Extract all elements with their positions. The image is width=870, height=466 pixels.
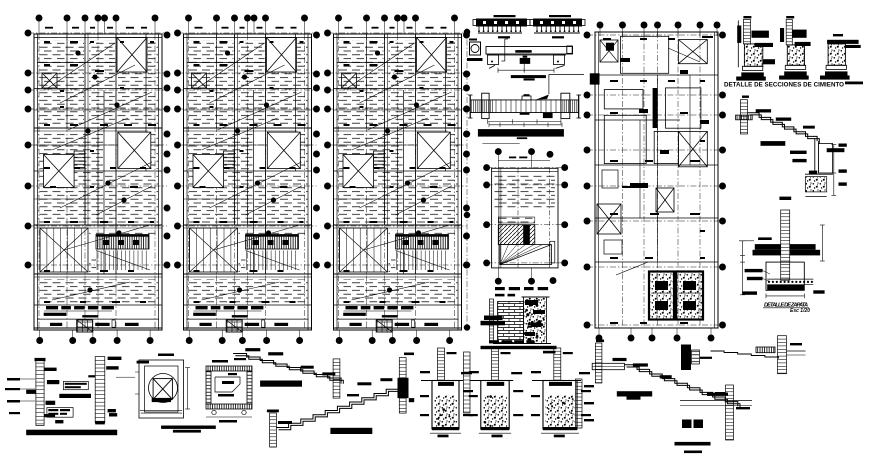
footing pit section 1: ground line: [421, 380, 463, 382]
beam-and-columns elevation V-D: [469, 95, 471, 118]
landing strip: [550, 241, 555, 263]
leader to grid bubble: [549, 73, 584, 75]
slab joist hatch areas: [38, 40, 84, 126]
section mark symbol with circle: [470, 42, 481, 55]
slab direction arrows with node circles: [48, 43, 115, 88]
stair zigzag steps: [748, 113, 818, 141]
long beam elevation V-C: [486, 47, 573, 55]
small X box left: [42, 73, 57, 88]
plan-3 to detail leader bubbles column: [464, 29, 470, 35]
schedule table 1: [63, 381, 88, 389]
typical slab floor plan block (aligerado): [25, 15, 170, 344]
beam crossing start column: [592, 363, 624, 369]
cimiento section 2: side reinforcement block: [792, 30, 806, 38]
shaft stair fan: [500, 245, 552, 265]
footing pit section 1: column: [438, 348, 445, 381]
landing support ladder 1: [333, 359, 340, 398]
stair flight section (far right): top ladder: [740, 100, 747, 134]
footing pit section 2: column: [492, 348, 499, 381]
column with dark splice block: [399, 358, 406, 378]
top dimension text dashes: [45, 27, 53, 29]
lower column with beam (bottom right): [726, 385, 734, 440]
cimiento section 1: footing block: [744, 44, 762, 66]
excavation room outlines: [620, 36, 668, 73]
wall section detail A (bottom far left): [35, 358, 46, 361]
zapata slab dark bands: [755, 244, 781, 250]
landing support box: [818, 144, 832, 174]
beam elevation detail V-B (top right): [549, 15, 571, 17]
long dark bar: [59, 394, 91, 398]
beam crossing ladder: [736, 115, 753, 120]
grid bubbles top row: [36, 15, 42, 21]
caption bar under wall sections (long): [26, 430, 117, 436]
grid bubbles left column + horizontal grid lines: [25, 30, 31, 36]
masonry left face rebar: [490, 299, 494, 343]
foundation plan grid bubbles left: [584, 32, 590, 38]
bottom schedule band: [37, 318, 159, 320]
schedule table 2: [47, 408, 73, 418]
section cut line through beam: [504, 39, 506, 61]
foundation plan outline: [595, 32, 718, 328]
masonry wall detail: brick block: [498, 302, 524, 343]
DETALLE DE ZAPATA: column rebar ladder: [781, 210, 790, 280]
heavy reinforced beam strip: [478, 129, 564, 137]
foundation plan grid bubbles right: [719, 32, 725, 38]
shaft plan outline: [492, 168, 558, 268]
title text: ALIGERADO NIVEL: [46, 306, 58, 309]
floor plan 3 (third level): [324, 15, 469, 344]
landing support ladder 2: [270, 413, 277, 447]
zapata bottom dimension: [766, 295, 804, 297]
elevator pit double footing grid (hatched): [649, 272, 674, 320]
cimiento section 3: top bar: [827, 40, 859, 44]
floor plan 2 (second level): [174, 15, 319, 344]
zapata right dimension line: [821, 225, 823, 261]
footing pit section 3: pit box: [543, 381, 577, 430]
beam size labels (tiny text dashes): [44, 41, 50, 43]
tank plan detail (ticked walls): [206, 366, 252, 371]
upper small chain to the right: [711, 351, 779, 359]
svg-text:Esc 1/20: Esc 1/20: [790, 308, 810, 314]
cistern plan detail with pump circle: [139, 360, 184, 418]
cimiento section 2: footing block: [787, 45, 804, 65]
shaft plan side bubbles: [484, 165, 490, 171]
middle stub + leader arrow: [522, 96, 531, 100]
zapata footing pedestal: [766, 262, 804, 290]
ground stipple block: [805, 177, 826, 192]
small caption right: [684, 451, 702, 454]
internal beam/wall lines: [34, 127, 162, 129]
footing 3 right ladder: [576, 379, 583, 428]
footing bottom black band: [767, 285, 804, 291]
footing rebar dowel band: [767, 278, 813, 280]
bottom-right stair chain zigzag: [624, 365, 737, 406]
caption bar flight 2: [330, 428, 372, 434]
vertical grid axis lines: [38, 34, 40, 330]
right dimension line: [833, 145, 835, 196]
cimiento section 3: footing block: [828, 44, 845, 65]
viga de cimentacion title dashes: [489, 340, 499, 343]
hanging block under beam: [543, 113, 553, 119]
grid bubbles right column: [164, 32, 170, 38]
stair flight 1 (descending): [245, 348, 260, 351]
cimiento section 2: base courses: [785, 65, 805, 69]
step labels: [756, 109, 771, 112]
center dark strip: [653, 88, 658, 128]
chain labels: [613, 358, 627, 361]
column reinforcement detail (bottom left): [108, 357, 122, 360]
dimension lines under V-D: [488, 121, 561, 123]
stair foot wedge: [809, 171, 817, 175]
chain caption bars: [617, 391, 652, 396]
dimension line under beam: [498, 69, 554, 71]
caption bar flight 1: [260, 381, 302, 387]
stair caption bar: [761, 141, 786, 146]
shaft plan bottom bubbles: [495, 278, 501, 284]
two dark pads: [682, 420, 692, 429]
zapata left dimension line: [741, 241, 743, 295]
hatched landing slab: [498, 225, 535, 245]
zapata labels: [745, 269, 763, 272]
X cross void box top-right: [117, 38, 147, 73]
dense joist strip (vigueta detail): [96, 235, 149, 250]
right anchor beam: [827, 148, 845, 152]
cimiento section 1: rebar ladder column: [743, 19, 750, 44]
lighter joist band below: [97, 251, 146, 271]
foundation plan label dashes: [603, 38, 611, 40]
left leader labels: [7, 378, 20, 381]
footing pit section 2: ground line: [470, 380, 513, 382]
middle hanging block: [523, 56, 528, 58]
footing pit section 3: ground line: [532, 380, 581, 382]
foundation internal walls: [595, 74, 718, 76]
foundation plan grid bubbles top: [597, 22, 603, 28]
caption bars: [511, 75, 546, 78]
bottom-right stair chain: start column: [595, 343, 602, 383]
footing pads with X marks: [600, 40, 618, 62]
stair-elevator shaft plan: grid bubbles top: [495, 149, 501, 155]
footing pit section 2: side labels: [469, 371, 479, 373]
long caption bar under masonry detail: [481, 346, 557, 349]
footing pit section 1: pit box: [432, 381, 459, 430]
beam elevation detail V-A (top left): [494, 15, 516, 17]
cimiento section 1: side reinforcement blocks: [752, 31, 769, 38]
footing pit section 1: side labels: [420, 371, 430, 373]
cimiento section 1: base courses: [742, 66, 762, 70]
break ticks: [489, 65, 495, 68]
X cross void box middle-left: [44, 155, 75, 188]
caption bars under cistern detail: [161, 426, 216, 429]
column crossing (hatched): [778, 336, 787, 374]
foundation plan grid bubbles bottom: [596, 335, 602, 341]
striped block between voids: [74, 151, 85, 168]
grid bubbles bottom row: [37, 337, 43, 343]
svg-text:DETALLE DE SECCIONES DE CIMIEN: DETALLE DE SECCIONES DE CIMIENTO: [724, 82, 844, 89]
hatched beam bar: [756, 347, 775, 353]
hanger stubs under beam: [488, 55, 499, 65]
cimiento section 3: base courses: [826, 65, 846, 69]
rebar ladder near footing sections: [464, 352, 471, 413]
footing pit section 3: side labels: [531, 371, 541, 373]
stair lower wall: [814, 139, 816, 173]
stair detail labels: [790, 151, 807, 154]
stair well with fan lines: [40, 228, 88, 272]
column 2 crossing beam: [561, 93, 570, 118]
footing pit section 2: pit box: [481, 381, 509, 430]
footing pit section 3: column: [554, 348, 561, 381]
stair flight 2 (ascending from lower left): [278, 421, 292, 424]
cimiento section 2: rebar ladder column: [786, 19, 792, 45]
masonry wall detail: concrete column: [524, 297, 547, 344]
X cross void box middle-right: [118, 132, 151, 169]
dark block under right plan: [681, 345, 691, 371]
column 1 crossing beam: [482, 93, 489, 118]
ramp arrow in foundation plan: [668, 48, 700, 62]
shaft plan title text: [495, 287, 505, 290]
plan outer border walls: [34, 34, 162, 330]
